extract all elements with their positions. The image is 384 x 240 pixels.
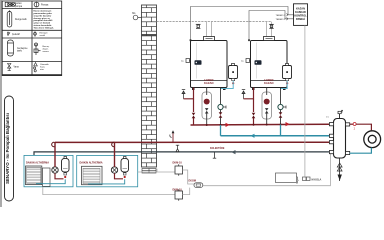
safety valve boiler 2 [242,90,245,99]
boiler B1 display [195,60,202,65]
boiler B2 body [251,41,288,91]
control wire boiler 2 to panel [249,11,294,41]
separator air vent [339,114,341,119]
control wire boiler 1 to panel [191,7,294,41]
svg-text:Pompa: Pompa [41,4,49,6]
svg-text:M KOLA: M KOLA [312,178,322,181]
pump group boiler 1 [202,88,212,126]
svg-text:TERMO 2: TERMO 2 [276,19,287,21]
boiler B1 flue cap [204,37,215,41]
svg-text:pompa: pompa [15,6,23,8]
svg-text:TERMO 1: TERMO 1 [276,15,287,17]
flow arrow on A [226,123,230,127]
svg-text:NG: NG [132,13,136,15]
boiler return riser teal 2 [280,125,282,136]
boiler supply header A [191,123,331,126]
safety vent on C [170,130,175,142]
pipe sensor to pump [356,124,371,130]
hydraulic separator [329,119,349,159]
svg-text:PANELİ: PANELİ [296,18,305,21]
svg-text:vanası: vanası [43,51,50,53]
boiler return riser teal 1 [220,125,222,136]
hp2 return pipe [88,179,125,184]
legend symbol valve r5 left [7,64,10,69]
flue duct [157,21,272,23]
hp2 outdoor unit grille [82,166,103,184]
legend symbol thermometer r3 right [34,31,36,36]
svg-text:atıcı: atıcı [40,68,45,71]
hp2 tank valve [123,173,126,175]
hp1 pump outlet [55,173,64,179]
supply valve boiler 2 [252,113,256,118]
hp1 tank valve [64,173,67,175]
svg-text:EKOM: EKOM [189,180,197,183]
legend symbol tank r2 left [7,12,12,28]
hp1 buffer tank [62,157,70,173]
legend symbol check valve r3 left [7,32,10,36]
system pump [364,131,381,148]
wire ekom out [203,153,330,186]
svg-text:Çekvalf: Çekvalf [12,34,20,36]
svg-text:DAIKIN ALTHERMA: DAIKIN ALTHERMA [80,162,103,165]
svg-text:Tüm devre 7/24 açık.: Tüm devre 7/24 açık. [34,26,55,29]
wire hp2 to dkm A [138,171,175,173]
pump group boiler 2 [262,88,272,126]
boiler B2 display [255,60,262,65]
wire hp1 to dkm B [43,187,175,195]
svg-text:Otomatik: Otomatik [40,63,50,66]
heat pump enclosure 2 [77,155,138,186]
legend symbol expansion tank r4 left [7,40,13,56]
legend symbol pressure group r4 right [34,43,41,55]
hp2 pump [111,167,117,173]
hp1 return pipe [36,179,65,183]
hp1 pump [52,167,58,173]
heat pump enclosure 1 [24,155,73,186]
terminal blocks [303,177,307,181]
svg-text:LODER: LODER [264,78,273,82]
junction dots on A [206,124,208,126]
cascade control panel [294,4,308,26]
hp riser hook 1 [52,142,55,146]
svg-text:KAZAN: KAZAN [264,81,273,85]
flue pipe boiler 1 [206,22,208,37]
wire dkm A to ekom [183,170,195,184]
svg-text:DKM-10: DKM-10 [173,161,183,164]
flue damper boiler 2 [269,24,274,28]
hp1 outdoor unit grille [26,166,42,185]
heat pump return header D [34,152,330,156]
safety valve boiler 1 [182,90,185,99]
return branch boiler 1 [218,88,226,126]
svg-text:KAZAN: KAZAN [204,81,213,85]
svg-text:Vana: Vana [14,67,20,69]
hp riser hook 2 [112,142,115,146]
legend symbol pump r1 right [34,2,39,7]
hp1 hydrobox [43,168,51,186]
supply valve boiler 1 [192,113,196,118]
flue damper boiler 1 [196,24,201,28]
separator drain [339,158,341,181]
svg-text:tankı: tankı [17,49,22,52]
mini table [142,169,156,174]
svg-text:düşür.: düşür. [43,48,49,51]
wire dkm B to ekom [183,188,190,195]
wire nub boiler 2 [248,39,250,41]
automation note box [276,173,297,183]
pump return pipe [350,148,372,154]
return branch boiler 2 [278,88,286,126]
hp2 buffer tank [121,157,129,173]
svg-text:ventili: ventili [40,34,46,37]
dosing pot boiler 1 [229,64,238,85]
dosing pot boiler 2 [283,64,292,85]
hp2 pump outlet [115,173,124,179]
svg-text:KOLEKTÖRE: KOLEKTÖRE [210,147,225,150]
flow arrow on B [250,134,254,138]
chimney [142,5,157,167]
air vent on D [176,145,179,152]
boiler return header B [221,135,331,137]
sheet left border [0,0,2,207]
hp2 supply riser [114,142,116,167]
wire D to terminals [304,25,306,176]
temperature sensor T2 [353,123,356,126]
supply stub boiler 1 [184,88,194,99]
title stadium label [5,96,14,201]
supply stub boiler 2 [244,88,254,99]
pot drain pipe 1 [221,81,234,89]
pot drain pipe 2 [281,81,288,89]
separator to pump supply [350,123,353,125]
boiler B2 flue cap [264,37,275,41]
wire nub boiler 1 [190,39,192,41]
separator ports right [346,123,350,126]
sensor pocket on D [214,152,216,158]
svg-text:LODER: LODER [204,78,213,82]
separator ports left [329,123,333,126]
svg-text:Denge kabı: Denge kabı [15,19,27,21]
heat pump supply header C [55,141,330,143]
flow arrow on D [231,150,235,154]
legend table frame [2,1,62,76]
svg-text:SENARYO - Isı Pompalı Bağlantı: SENARYO - Isı Pompalı Bağlantısı [5,113,10,184]
svg-text:DAIKIN ALTHERMA: DAIKIN ALTHERMA [26,162,49,165]
hp1 supply riser [54,142,56,167]
boiler B1 body [191,41,228,91]
legend symbol boiler-pump r1 left [5,2,15,6]
flue pipe boiler 2 [266,22,268,37]
legend symbol air vent r5 right [34,63,38,66]
legend note paragraph r2 right [34,10,55,30]
